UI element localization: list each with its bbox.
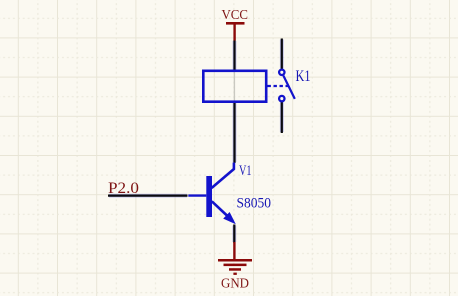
svg-text:K1: K1 <box>296 68 311 85</box>
svg-text:P2.0: P2.0 <box>108 180 139 197</box>
svg-text:VCC: VCC <box>222 8 249 23</box>
svg-text:S8050: S8050 <box>237 196 272 212</box>
svg-text:V1: V1 <box>239 163 252 179</box>
svg-text:GND: GND <box>221 277 249 292</box>
